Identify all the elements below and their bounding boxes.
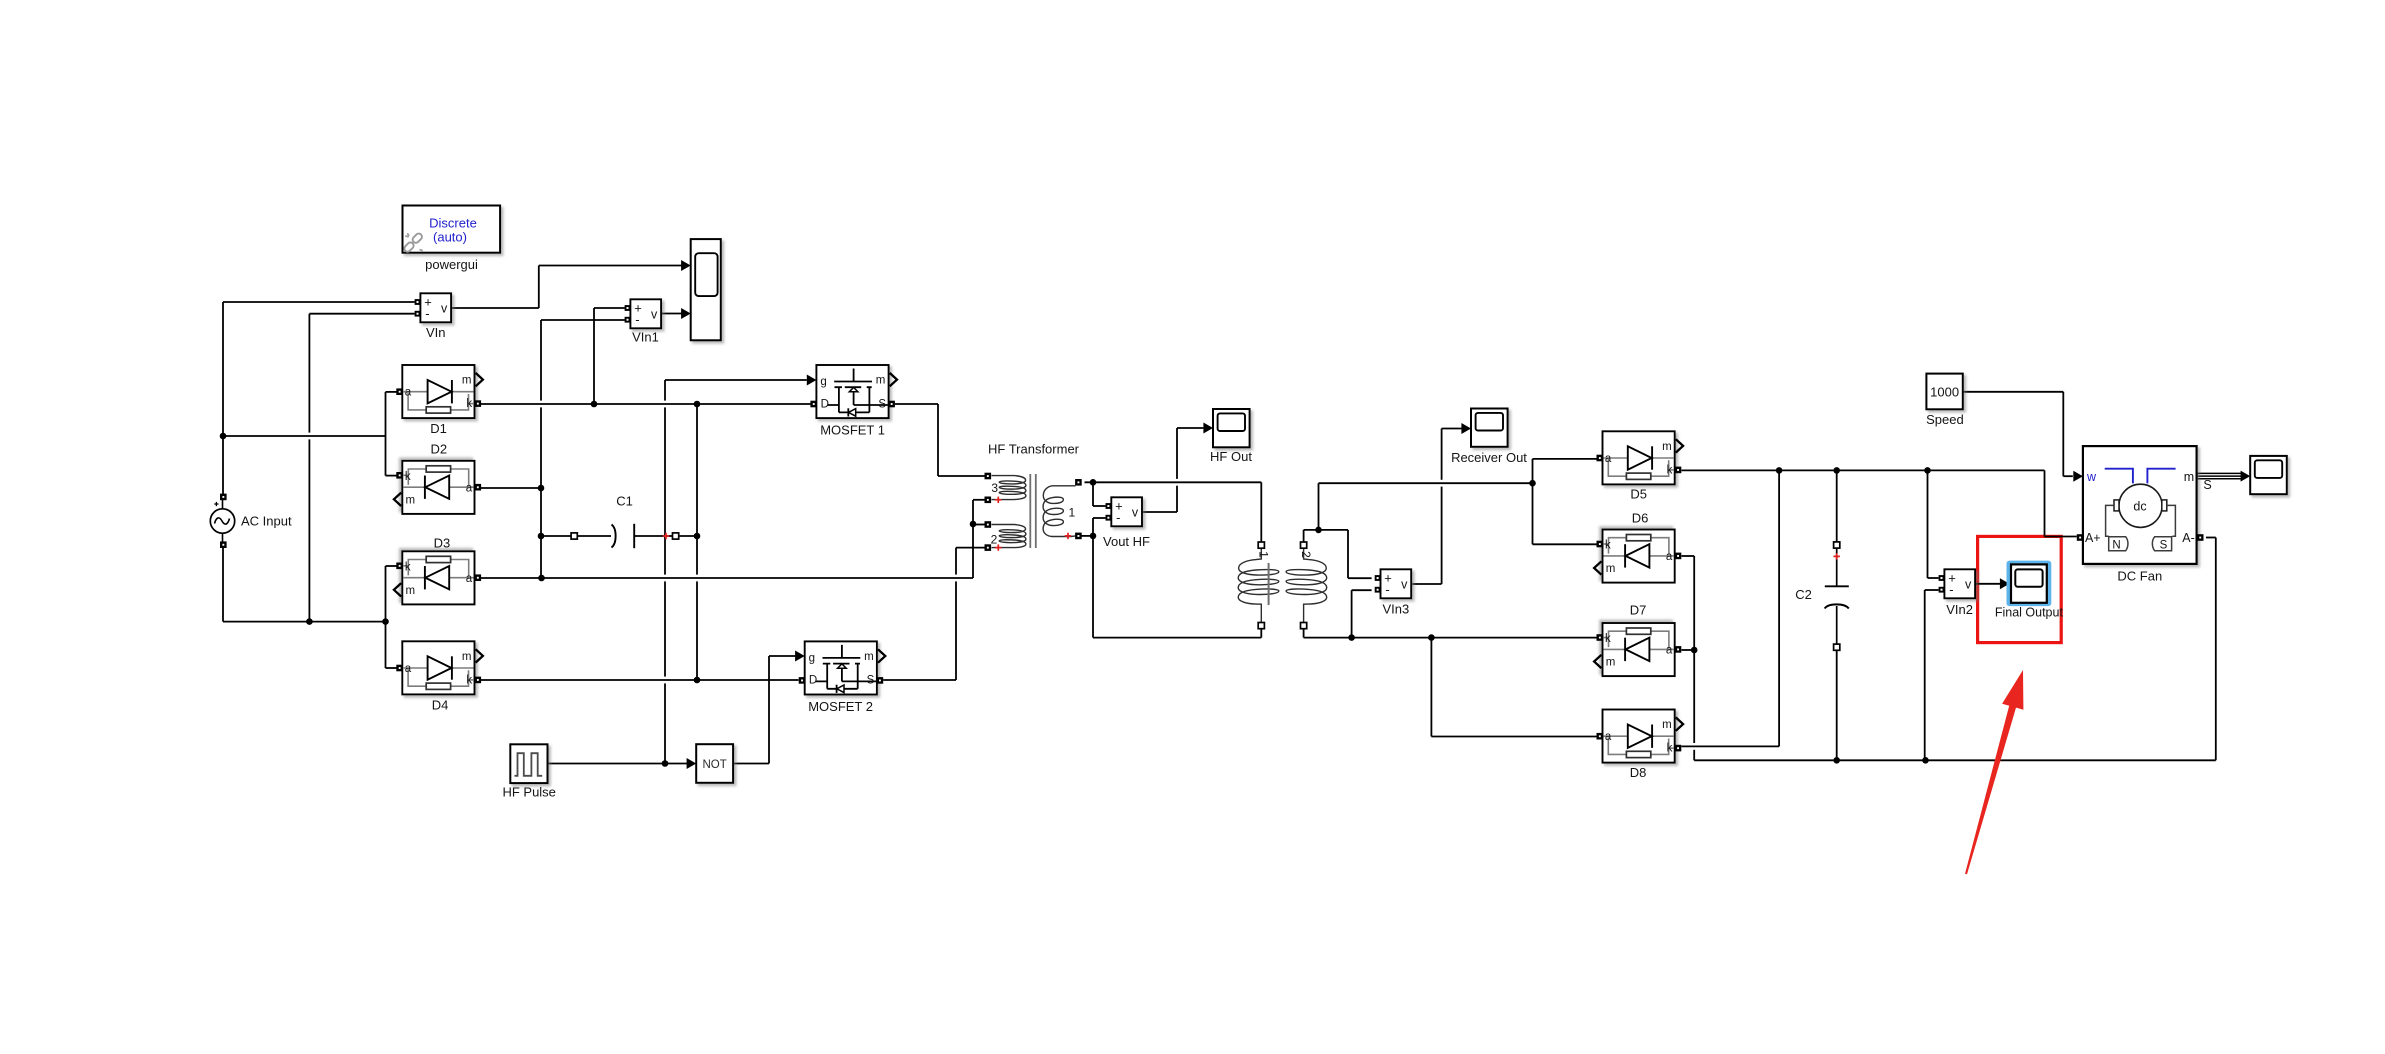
svg-text:S: S [2160,540,2168,552]
svg-text:m: m [2184,470,2194,484]
wire NOT out riser x769 [768,656,770,764]
wire VIn.v to scope riser [538,266,540,309]
wire receiver coil2 top to junction [1304,529,1348,531]
wire DC Fan A+ drop x2044 [2044,470,2046,536]
receiver coil 1 core bar [1268,563,1270,605]
wire node A vertical x697 [696,404,698,680]
wire to coil3 plus [973,499,985,501]
wire DC bus bottom rail [1694,759,2216,761]
wire D8k to riser [1682,745,1780,747]
svg-text:m: m [406,585,416,597]
HF Transformer core [1030,474,1036,548]
junction tap coil2 [970,521,977,528]
junction D8a branch [1428,634,1435,641]
wire Speed drop x2063 [2062,392,2064,476]
wire Vout HF plus stub [1092,482,1094,506]
constant Speed 1000 [1926,374,1962,410]
wire VIn.v to scope [451,307,539,309]
D1 a port [396,388,403,395]
arrow into Final Output [2000,578,2010,589]
wire MOSFET2 S to coil2 plus [883,679,956,681]
svg-text:C2: C2 [1795,587,1812,602]
wire receiver top riser x1318 [1318,483,1320,530]
diode D3 [394,551,475,604]
wire AC- horizontal [223,621,386,623]
wire node B vertical x541 [540,320,542,578]
arrow into DC Fan w [2073,471,2083,482]
voltage measurement VIn2 [1939,569,1976,598]
wire D6a/D7a vertical x1694 [1693,556,1695,760]
svg-text:m: m [406,494,416,506]
D7 a port [1675,646,1682,653]
svg-text:NOT: NOT [702,759,726,771]
svg-text:MOSFET 1: MOSFET 1 [820,423,885,438]
MOSFET 1 S port [888,401,895,408]
wire VIn- vertical [308,314,310,622]
voltage measurement VIn1 [625,299,662,328]
wire to D2 k [386,475,397,477]
junction D2a [538,485,545,492]
wire MOSFET1 S riser x938 [937,404,939,476]
svg-text:VIn: VIn [426,325,446,340]
wire VIn2 v to Final Output [1975,583,2000,585]
svg-text:A-: A- [2182,531,2195,545]
C2 bottom port [1834,644,1840,650]
wire D7a stub [1682,649,1695,651]
wire to D6 k [1533,543,1597,545]
receiver coil 2 top port [1301,542,1307,548]
wire D8a drop x1431 [1430,638,1432,737]
motor block DC Fan [2083,446,2197,564]
svg-text:m: m [462,375,472,387]
svg-text:a: a [466,573,473,585]
svg-text:D1: D1 [430,421,447,436]
svg-text:HF Transformer: HF Transformer [988,442,1080,457]
wire D1k to MOSFET1 D [481,403,811,405]
scope Receiver Out [1471,409,1508,447]
pulse generator HF Pulse [510,744,547,783]
junction receiver coil2 [1315,527,1322,534]
arrow into right scope [2241,471,2251,482]
svg-text:k: k [405,471,411,483]
HF Transformer winding 2 top port [985,521,992,528]
wire HF Pulse output [548,763,687,765]
wire to VIn2 plus [1928,577,1939,579]
svg-text:S: S [2203,478,2211,492]
wire gate2 horizontal [769,655,795,657]
wire VIn1+ horizontal [594,307,625,309]
wire AC- vertical [222,548,224,622]
wire D6a stub [1682,555,1695,557]
junction coil1 bottom [1090,533,1097,540]
junction VIn1+ [591,401,598,408]
svg-text:k: k [466,674,472,686]
wire bridge left riser D1a/D2k [385,392,387,476]
svg-text:Receiver Out: Receiver Out [1451,450,1527,465]
D6 a port [1675,553,1682,560]
wire to D4 a [386,667,397,669]
wire to D3 k [386,565,397,567]
svg-text:D4: D4 [432,698,449,713]
wire C2 bottom lead [1836,647,1838,760]
wire to D5 a [1533,458,1597,460]
D2 a port [475,484,482,491]
wire bridge left riser D3k/D4a [385,566,387,668]
svg-text:D6: D6 [1632,511,1649,526]
arrow into Receiver Out [1461,423,1471,434]
junction AC- bridge [382,618,389,625]
capacitor C2 [1825,541,1849,647]
wire receiver bottom rail [1093,637,1261,639]
svg-text:VIn1: VIn1 [632,330,659,345]
svg-text:Final Output: Final Output [1995,605,2064,619]
svg-text:DC Fan: DC Fan [2117,569,2162,584]
svg-text:3: 3 [991,481,998,495]
svg-text:S: S [878,398,886,410]
arrow into MOSFET1 g [807,375,817,386]
wire NOT output [733,763,769,765]
annotation red arrow [1965,670,2023,874]
wire MOSFET1 S out [895,403,938,405]
D8 k port [1675,745,1682,752]
capacitor C1 [612,524,635,548]
HF Transformer winding 3 plus port [985,497,992,504]
powergui block [403,206,501,254]
scope HF Out [1213,409,1250,447]
junction VIn3- [1348,634,1355,641]
wire to DC Fan A+ [2045,536,2077,538]
svg-text:k: k [405,561,411,573]
wire to DC Fan w [2063,475,2073,477]
wire coil1 top to receiver [1085,481,1262,483]
wire bottom rail D3a [481,577,973,579]
svg-text:1: 1 [1069,506,1076,520]
svg-text:VIn3: VIn3 [1383,602,1410,617]
wire D5a/D6k riser x1532 [1532,459,1534,544]
wire transformer secondary minus vertical [1092,518,1094,638]
svg-text:2: 2 [991,533,998,547]
svg-text:Vout HF: Vout HF [1103,534,1150,549]
svg-text:m: m [462,651,472,663]
wire to D1 a [386,391,397,393]
C1 plus mark [663,533,669,539]
wire MOSFET2 S riser x956 [955,548,957,680]
svg-text:g: g [809,653,815,665]
svg-text:a: a [466,483,473,495]
svg-text:VIn2: VIn2 [1946,602,1973,617]
svg-text:D5: D5 [1630,486,1647,501]
D6 k port [1597,541,1604,548]
svg-text:C1: C1 [616,494,633,509]
svg-text:w: w [2086,470,2097,484]
wire to coil2 top [973,524,985,526]
logic NOT block [696,744,733,783]
svg-text:k: k [1605,540,1611,552]
svg-text:D8: D8 [1630,765,1647,780]
wire Vout HF v out [1142,511,1177,513]
wire receiver top link [1319,482,1533,484]
wire D8k riser x1779 [1778,470,1780,746]
wire receiver coil1 bottom stub [1260,626,1262,638]
wire C1 right lead [634,535,672,537]
receiver coil 1 [1238,549,1279,623]
junction gate1 pulse [662,760,669,767]
junction C2 top [1833,467,1840,474]
transformer HF Transformer winding 3 [992,476,1026,500]
junction AC+/bridge [220,433,227,440]
selection highlight for Final Output [2007,561,2052,607]
receiver coil 2 [1286,549,1327,623]
junction VIn-/AC- [306,618,313,625]
svg-text:(auto): (auto) [433,230,467,245]
svg-text:a: a [405,663,412,675]
svg-text:a: a [1666,551,1673,563]
svg-text:Speed: Speed [1926,412,1964,427]
wire VIn1- horizontal [541,319,625,321]
wire C2 top lead [1836,470,1838,541]
svg-text:1: 1 [1257,551,1271,558]
D4 k port [475,677,482,684]
wire receiver coil2 bottom stub [1303,626,1305,638]
svg-text:A+: A+ [2085,531,2101,545]
svg-text:2: 2 [1299,551,1313,558]
junction node B rail [538,575,545,582]
voltage measurement VIn [415,293,452,322]
svg-text:m: m [1606,657,1616,669]
C1 left port [571,533,577,539]
transformer HF Transformer winding 1 [1043,486,1075,537]
wire D2a to node B [481,487,541,489]
wire D4k to MOSFET2 D [481,679,799,681]
C2 plus mark [1834,553,1840,559]
D3 k port [396,563,403,570]
D7 k port [1597,634,1604,641]
D5 k port [1675,467,1682,474]
svg-text:m: m [864,651,874,663]
MOSFET 2 S port [877,677,884,684]
wire Speed output [1963,391,2064,393]
svg-text:k: k [1605,633,1611,645]
svg-text:1000: 1000 [1930,384,1959,399]
wire receiver coil1 top drop [1260,482,1262,542]
receiver coil 1 top port [1258,542,1264,548]
wire AC+ to bridge node [223,435,386,437]
wire DC Fan A- out [2206,537,2216,539]
AC Input bottom port [220,541,227,548]
D1 k port [475,400,482,407]
voltage measurement VIn3 [1375,569,1412,598]
wire DC Fan A- drop x2216 [2215,538,2217,761]
wire gate1 horizontal [665,379,807,381]
wire DC Fan m out triple [2197,473,2241,478]
MOSFET 2 D port [799,677,806,684]
AC source AC Input [210,500,234,542]
svg-text:m: m [1662,719,1672,731]
D4 a port [396,665,403,672]
svg-text:S: S [867,675,875,687]
wire VIn1+ riser x594 [593,308,595,404]
svg-text:k: k [1667,464,1673,476]
wire to Vout HF minus [1093,517,1105,519]
annotation red highlight box [1978,536,2062,642]
svg-text:m: m [876,375,886,387]
scope output (right) [2250,456,2287,494]
wire VIn3- drop x1351 [1351,590,1353,637]
diode D1 [402,365,483,418]
svg-text:HF Pulse: HF Pulse [502,785,555,800]
D8 a port [1597,733,1604,740]
HF Transformer winding 3 top port [985,473,992,480]
DC Fan A+ port [2077,534,2084,541]
svg-text:D2: D2 [430,442,447,457]
C2 top port [1834,542,1840,548]
diode D2 [394,461,475,514]
junction D7a [1691,647,1698,654]
svg-text:m: m [1606,563,1616,575]
svg-text:a: a [1605,731,1612,743]
voltage measurement Vout HF [1106,497,1143,526]
wire VIn2- drop x1925 [1924,590,1926,760]
arrow into HF Out [1203,423,1213,434]
junction receiver link [1529,480,1536,487]
winding 2 plus mark [995,544,1001,550]
junction VIn2+ rail [1924,467,1931,474]
wire DC bus top rail [1682,469,2045,471]
junction node A top [694,401,701,408]
wire C1 left lead [541,535,571,537]
D3 a port [475,574,482,581]
wire to VIn3 plus [1348,577,1372,579]
diode D6 [1594,530,1675,583]
arrow into Scope in2 [681,308,691,319]
transformer HF Transformer winding 2 [992,525,1026,548]
wire to VIn3 minus [1352,589,1372,591]
wire gate1 vertical x665 [664,380,666,764]
wire VIn1.v to scope [661,313,681,315]
transistor MOSFET 2 [805,641,886,694]
wire transformer tap riser x973 [972,500,974,578]
svg-text:dc: dc [2133,500,2146,514]
svg-text:k: k [466,398,472,410]
wire VIn2+ riser x1927 [1927,470,1929,578]
DC Fan A- port [2197,534,2204,541]
junction C2 bottom [1833,757,1840,764]
svg-text:m: m [1662,441,1672,453]
HF Transformer winding 1 bottom port [1075,533,1082,540]
svg-text:a: a [1605,453,1612,465]
diode D7 [1594,623,1675,676]
junction C1 right [694,533,701,540]
HF Transformer winding 2 plus port [985,544,992,551]
wire to D8 a [1431,736,1596,738]
wire VIn3+ drop x1348 [1347,530,1349,578]
wire VIn- horizontal [309,313,414,315]
diode D8 [1603,710,1684,763]
wire HF Out riser x1177 [1176,428,1178,512]
svg-text:powergui: powergui [425,257,478,272]
receiver coil 1 bottom port [1258,623,1264,629]
HF Transformer winding 1 top port [1075,479,1082,486]
svg-text:HF Out: HF Out [1210,449,1252,464]
diode D5 [1603,431,1684,484]
svg-text:a: a [1666,645,1673,657]
arrow into MOSFET2 g [795,651,805,662]
wire to Vout HF plus [1093,505,1105,507]
svg-text:D: D [821,398,829,410]
svg-text:MOSFET 2: MOSFET 2 [808,699,873,714]
wire to VIn2 minus [1925,589,1939,591]
wire VIn3 v out [1412,583,1441,585]
wire AC+ to VIn+ vertical [222,302,224,494]
svg-text:D: D [809,675,817,687]
svg-text:N: N [2112,540,2120,552]
svg-text:Discrete: Discrete [429,216,477,231]
junction C1 left [538,533,545,540]
junction node A bottom [694,677,701,684]
svg-text:D3: D3 [434,536,451,551]
svg-text:a: a [405,387,412,399]
svg-text:AC Input: AC Input [241,514,292,529]
AC Input top port [220,494,227,501]
scope Final Output [2011,564,2047,602]
wire AC+ to VIn+ [223,301,415,303]
svg-text:g: g [820,376,826,388]
diode D4 [402,641,483,694]
D2 k port [396,472,403,479]
wire coil1 bottom to junction [1081,535,1093,537]
D5 a port [1597,455,1604,462]
arrow into Scope in1 [681,260,691,271]
junction coil1 top [1090,479,1097,486]
junction D8k rail [1776,467,1783,474]
receiver coil 2 bottom port [1301,623,1307,629]
wire to coil3 top [938,475,985,477]
wire Receiver Out riser x1441 [1441,429,1443,585]
junction VIn2- rail [1922,757,1929,764]
winding 3 plus mark [995,497,1001,503]
svg-text:D7: D7 [1630,603,1647,618]
wire receiver coil2 top stub [1303,530,1305,542]
svg-text:k: k [1667,743,1673,755]
C1 right port [673,533,679,539]
arrow into NOT [687,758,697,769]
transistor MOSFET 1 [816,365,897,418]
winding 1 plus mark [1065,533,1071,539]
scope Scope (tall) [691,239,721,340]
MOSFET 1 D port [810,401,817,408]
